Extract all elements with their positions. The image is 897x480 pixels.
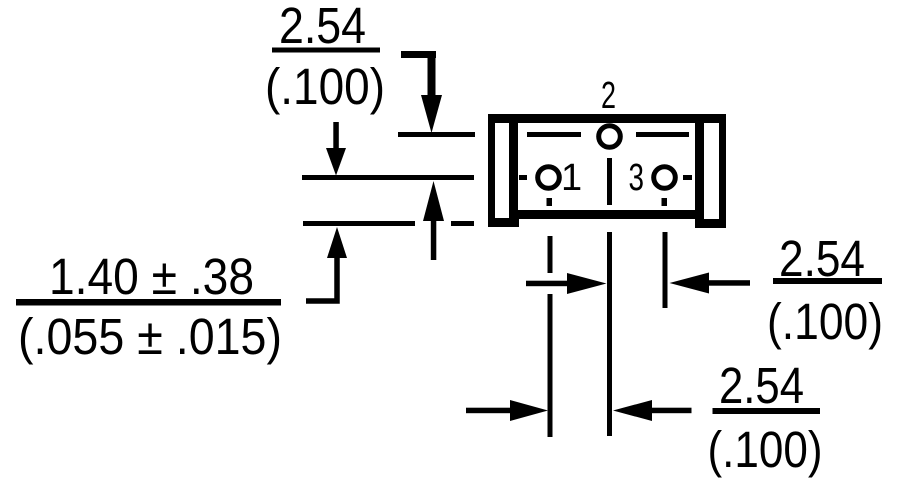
- fraction bar lower-right: [713, 408, 821, 414]
- center vertical line inside body: [607, 158, 612, 205]
- pin 1 circle: [538, 167, 560, 189]
- svg-text:1: 1: [561, 157, 582, 199]
- dash below pin 1: [547, 198, 553, 206]
- potentiometer body top bar: [488, 114, 726, 123]
- body left wall: [509, 114, 518, 218]
- svg-text:3: 3: [629, 157, 645, 199]
- body right cap bottom: [695, 219, 726, 228]
- arrow down (1.40 dim top) shaft: [333, 122, 339, 150]
- extension line body bottom dash B: [451, 221, 474, 226]
- svg-text:(.055 ± .015): (.055 ± .015): [18, 308, 282, 365]
- leader line from 2.54 label horizontal: [401, 51, 436, 58]
- arrowhead right (upper 2.54 dim): [567, 273, 607, 294]
- svg-text:2: 2: [601, 75, 616, 117]
- svg-text:(.100): (.100): [708, 421, 823, 478]
- pin 1 lead extension line lower segment: [548, 294, 553, 437]
- body bottom bar: [509, 210, 704, 219]
- leader line from 2.54 label vertical: [428, 51, 436, 100]
- arrow right (upper 2.54 dim) shaft: [526, 281, 572, 287]
- arrowhead down to pin-2 row line: [421, 95, 442, 133]
- svg-text:2.54: 2.54: [279, 0, 366, 54]
- centerline dash right of pin 3: [683, 175, 692, 180]
- arrow left (lower 2.54 dim) shaft: [652, 408, 692, 414]
- fraction bar left: [16, 299, 281, 306]
- arrow left (upper 2.54 dim) shaft: [709, 280, 750, 286]
- pin 2 circle: [599, 126, 621, 148]
- extension line pin-2 row: [398, 132, 475, 137]
- centerline dash left of pin 1: [519, 175, 527, 180]
- arrow up (2.54 vertical dim) shaft: [431, 218, 437, 260]
- pin 1 lead extension line upper dash: [548, 236, 553, 273]
- fraction bar top-left: [272, 48, 380, 53]
- arrowhead up (1.40 dim bottom): [327, 227, 347, 258]
- body right wall: [695, 114, 704, 219]
- svg-text:(.100): (.100): [767, 293, 883, 350]
- fraction bar upper-right: [773, 278, 882, 284]
- svg-text:(.100): (.100): [265, 58, 385, 115]
- svg-text:2.54: 2.54: [719, 357, 804, 414]
- arrow right (lower 2.54 dim) shaft: [466, 408, 515, 414]
- arrowhead right (lower 2.54 dim): [510, 400, 548, 421]
- center extension line: [607, 232, 612, 436]
- extension line pin-1/3 row: [302, 175, 474, 180]
- leader line (1.40 dim bottom): [306, 256, 337, 301]
- pin 3 circle: [654, 167, 676, 189]
- arrowhead left (lower 2.54 dim): [613, 400, 652, 421]
- body left cap outer edge: [488, 114, 495, 227]
- body right cap outer edge: [719, 114, 726, 228]
- centerline dash left of pin 2: [527, 132, 581, 137]
- extension line body bottom segment A: [303, 221, 415, 226]
- centerline dash right of pin 2: [636, 132, 689, 137]
- arrowhead up (2.54 vertical dim): [423, 181, 444, 221]
- svg-text:1.40 ± .38: 1.40 ± .38: [49, 248, 254, 305]
- body left cap bottom: [488, 218, 519, 227]
- pin 3 lead extension line: [663, 232, 668, 308]
- arrowhead down (1.40 dim top): [326, 148, 346, 176]
- arrowhead left (upper 2.54 dim): [670, 273, 710, 294]
- dash below pin 3: [662, 198, 668, 206]
